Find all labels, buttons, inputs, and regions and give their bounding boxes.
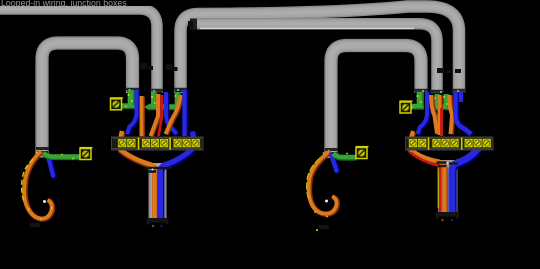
wire: earth drop cable2 JB2 bbox=[437, 94, 438, 106]
wire: earth drop cable3 JB2 bbox=[446, 94, 447, 108]
wire: neutral blue cable2 JB1 into group3 bbox=[166, 92, 177, 135]
wire: live red link into JB2 group2 bbox=[440, 108, 443, 136]
earth terminal JB2 bbox=[400, 100, 413, 113]
separator JB1 a bbox=[138, 138, 140, 150]
terminal JB1 G2-T3 bbox=[160, 139, 169, 148]
cable cut marks: JB1 cables bbox=[126, 89, 187, 90]
wire: neutral blue cable1 JB2 into group1 bbox=[418, 92, 428, 134]
flex curl flecks rose 1 bbox=[28, 152, 52, 221]
cable: switch drop 1 (left vertical, bends into JB1 left) bbox=[42, 43, 133, 158]
flex curl flecks rose 2 bbox=[314, 152, 328, 231]
black trim at image top bbox=[0, 0, 183, 6]
cut mark: pendant cable JB2 bottom bbox=[436, 212, 459, 221]
wire: switched live brown JB2 to lamp flex bbox=[410, 131, 445, 216]
wire: earth link rose 2 bbox=[333, 154, 356, 158]
wire: red sleeve JB2 to lamp flex bbox=[411, 153, 441, 215]
wire: neutral blue stub rose 1 bbox=[48, 156, 54, 176]
terminal JB2 G2-T2 bbox=[441, 139, 450, 148]
white marker rose 2 bbox=[325, 200, 328, 203]
separator JB2 b bbox=[461, 138, 463, 150]
terminal JB2 G1-T2 bbox=[418, 139, 427, 148]
wire: lamp flex curl rose 1 bbox=[24, 151, 53, 219]
wire: neutral blue cable3 JB1 into group3 bbox=[185, 90, 186, 136]
cable cut marks: JB2 cables bbox=[414, 90, 466, 91]
separator JB1 b bbox=[169, 138, 171, 150]
earth bus arrowhead JB1 b bbox=[163, 104, 170, 112]
wire: earth yellow in JB2 lamp cable bbox=[437, 167, 439, 208]
wire: earth drop cable1 JB2 bbox=[420, 92, 421, 106]
cable: link JB1 to JB2 (upper long run, rises to image top at right) bbox=[181, 6, 460, 93]
terminal JB2 G3-T2 bbox=[473, 139, 482, 148]
terminal JB2 G2-T3 bbox=[450, 139, 459, 148]
terminal strip JB2 body bbox=[406, 137, 494, 150]
separator JB2 a bbox=[428, 138, 430, 150]
wire: neutral blue JB2 into group3 (swoosh) bbox=[456, 92, 472, 134]
terminal JB1 G3-T1 bbox=[173, 139, 182, 148]
earth terminal JB1 bbox=[110, 97, 123, 110]
earth bus arrowhead JB2 a bbox=[431, 103, 438, 111]
sheath: pendant cable JB2 bbox=[438, 160, 458, 216]
terminal JB2 G3-T1 bbox=[464, 139, 473, 148]
earth yellow flecks JB1 bbox=[125, 94, 179, 108]
wire: lamp flex curl rose 2 bbox=[309, 151, 338, 214]
wire: live brown cable3 JB1 into group2 bbox=[166, 95, 182, 134]
wire: live brown cable2 JB1 into group2 bbox=[151, 94, 159, 136]
terminal JB1 G1-T2 bbox=[127, 139, 136, 148]
sheath: pendant cable JB1 bbox=[149, 163, 167, 222]
cut mark: pendant cable JB2 top bbox=[437, 163, 459, 167]
wire: neutral blue JB2 to lamp flex bbox=[452, 148, 479, 216]
label smudges on JB1 cables bbox=[141, 63, 178, 71]
terminal JB1 G1-T1 bbox=[118, 139, 127, 148]
cable cut mark: switch drop 2 end bbox=[325, 150, 338, 154]
wire: earth bus JB2 segment b bbox=[432, 104, 449, 111]
earth terminal rose 1 bbox=[80, 147, 93, 160]
terminal JB1 G2-T1 bbox=[142, 139, 151, 148]
cable: switch drop 2 (bends into JB2 left) bbox=[331, 46, 421, 159]
terminal JB1 G3-T3 bbox=[191, 139, 200, 148]
wire: live brown cable2 JB2 into group2 bbox=[437, 95, 443, 135]
stray mark rose 1 bbox=[30, 223, 40, 227]
terminal JB2 G2-T1 bbox=[432, 139, 441, 148]
cut mark: pendant cable JB1 bottom bbox=[147, 218, 169, 227]
label smudges on JB2 cables bbox=[437, 68, 461, 73]
wire: neutral blue cable1 JB1 into group1 bbox=[127, 90, 137, 134]
wire: earth link rose 1 bbox=[43, 153, 80, 157]
wire: live brown cable1 JB1 into group2 bbox=[139, 96, 145, 136]
cut mark: pendant cable JB1 top bbox=[146, 168, 171, 172]
svg-text:Looped-in wiring, junction box: Looped-in wiring, junction boxes bbox=[1, 0, 127, 8]
cable cut mark: switch drop 1 end bbox=[36, 149, 49, 153]
white marker rose 1 bbox=[43, 200, 46, 203]
wire: neutral blue JB1 to lamp flex bbox=[161, 132, 194, 223]
terminal JB2 G1-T1 bbox=[409, 139, 418, 148]
terminal strip JB1 body bbox=[112, 137, 204, 150]
wire: earth drop cable3 JB1 bbox=[177, 92, 178, 107]
wire: live brown cable1 JB2 into group2 bbox=[431, 95, 438, 134]
wire: earth bus JB1 segment a bbox=[121, 103, 135, 110]
wire: live red link into JB1 group2 bbox=[159, 95, 163, 136]
earth yellow flecks JB2 bbox=[411, 95, 448, 108]
earth terminal rose 2 bbox=[356, 146, 369, 159]
stray mark rose 2 bbox=[319, 225, 329, 229]
terminal JB1 G2-T2 bbox=[151, 139, 160, 148]
wire: switched live brown JB1 to lamp flex bbox=[120, 131, 155, 223]
cable: supply feed in (top-left horizontal, bends down into JB1 middle) bbox=[0, 9, 157, 93]
wire: earth bus JB2 segment a bbox=[408, 103, 424, 110]
wire: earth drop cable1 JB1 bbox=[131, 90, 132, 105]
wire: earth drop cable2 JB1 bbox=[153, 91, 154, 105]
cable: circuit feed onward (lower long run, cut end at left) bbox=[197, 24, 437, 93]
wire: live brown cable3 JB2 into group2 bbox=[449, 95, 452, 134]
wire: neutral blue stub rose 2 bbox=[331, 155, 337, 171]
wire: earth bus JB1 segment b bbox=[151, 104, 180, 111]
terminal JB1 G3-T2 bbox=[182, 139, 191, 148]
terminal JB2 G3-T3 bbox=[482, 139, 491, 148]
earth bus arrowhead JB1 a bbox=[144, 103, 151, 111]
cut end of feed-onward cable bbox=[188, 19, 197, 30]
